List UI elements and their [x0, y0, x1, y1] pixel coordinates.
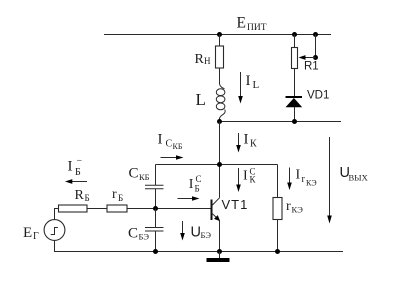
- svg-text:C: C: [166, 139, 173, 150]
- label C_КБ: [129, 166, 150, 182]
- wire C_БЭ bottom stub: [155, 231, 157, 252]
- wire r_кэ to bottom rail: [277, 220, 279, 252]
- node dot VD1 on middle rail: [292, 119, 297, 124]
- arrow current I_Б pointing left: [65, 179, 87, 184]
- svg-text:КБ: КБ: [139, 172, 150, 182]
- svg-text:ВЫХ: ВЫХ: [349, 173, 368, 183]
- resistor R_Б: [59, 205, 88, 212]
- label E_Г: [23, 225, 39, 242]
- arrow current I_C_КБ: [161, 155, 184, 160]
- wire from collector rail corner down to r_кэ: [277, 165, 279, 199]
- label R_н: [195, 52, 212, 67]
- arrow R1 wiper pointing left into resistor: [299, 55, 316, 60]
- wire C_КБ top stub: [155, 165, 157, 186]
- svg-text:I: I: [296, 168, 301, 183]
- resistor r_кэ: [273, 198, 282, 220]
- label C_БЭ: [128, 226, 149, 242]
- node dot collector rail junction: [217, 162, 222, 167]
- label I_r_кэ: [296, 168, 317, 188]
- wire middle rail: [220, 121, 342, 123]
- arrow current I_Б^C: [178, 196, 200, 201]
- svg-text:КЭ: КЭ: [292, 205, 304, 215]
- wire from R_н down to inductor L: [219, 68, 221, 84]
- svg-text:E: E: [23, 225, 32, 241]
- svg-text:I: I: [243, 169, 248, 184]
- label I_К: [244, 132, 258, 150]
- label r_Б: [112, 187, 123, 203]
- resistor r_Б: [107, 205, 127, 212]
- node dot wiper corner: [313, 55, 318, 60]
- svg-text:I: I: [189, 177, 194, 192]
- svg-text:I: I: [246, 73, 251, 89]
- wire from E_Г bottom to ground rail: [55, 240, 344, 251]
- capacitor C_КБ: [145, 185, 164, 189]
- label U_ВЫХ: [340, 165, 368, 183]
- node dot C_БЭ on bottom rail: [153, 249, 158, 254]
- wire R1 wiper drop: [315, 35, 317, 58]
- node junction dot top rail at R_н branch: [217, 32, 222, 37]
- svg-text:−: −: [77, 156, 83, 167]
- label I_Б^- with arrow left: [68, 156, 83, 179]
- svg-text:C: C: [129, 166, 139, 182]
- svg-text:Б: Б: [75, 167, 81, 178]
- label r_кэ: [286, 199, 303, 215]
- svg-text:БЭ: БЭ: [139, 232, 150, 242]
- svg-text:I: I: [68, 159, 73, 175]
- svg-text:L: L: [196, 90, 206, 109]
- arrow current I_К^C: [236, 168, 241, 192]
- label I_L: [246, 73, 260, 91]
- svg-text:ПИТ: ПИТ: [247, 23, 267, 33]
- resistor R1 (variable): [292, 48, 298, 69]
- svg-text:КЭ: КЭ: [306, 179, 317, 188]
- svg-text:VD1: VD1: [307, 90, 329, 102]
- diode VD1 triangle: [286, 98, 303, 107]
- wire from R1 dot down to R1: [294, 35, 296, 48]
- svg-text:VT1: VT1: [222, 197, 249, 212]
- wire E_pit top supply rail: [104, 34, 331, 36]
- node dot L / collector junction: [217, 119, 222, 124]
- wire from R1 down to VD1: [294, 69, 296, 97]
- svg-text:R1: R1: [304, 61, 319, 73]
- svg-text:Н: Н: [204, 56, 211, 66]
- svg-text:КБ: КБ: [173, 142, 183, 151]
- arrow current I_L: [238, 72, 243, 104]
- arrow current I_K: [236, 133, 241, 153]
- wire base rail from r_Б to VT1 base: [127, 208, 212, 210]
- node dot base rail / capacitors: [153, 206, 158, 211]
- svg-text:r: r: [112, 187, 117, 202]
- svg-text:C: C: [196, 174, 202, 184]
- svg-text:U: U: [191, 225, 201, 241]
- svg-text:Б: Б: [85, 193, 90, 203]
- arrow voltage U_ВЫХ: [327, 137, 332, 224]
- svg-text:L: L: [253, 79, 260, 91]
- wire from E_Г to R_Б: [55, 209, 59, 220]
- resistor R_н: [216, 46, 224, 68]
- svg-text:Б: Б: [118, 193, 123, 203]
- svg-text:Б: Б: [195, 184, 200, 194]
- node dot emitter on bottom rail: [217, 249, 222, 254]
- label R_Б: [75, 188, 90, 203]
- arrow voltage U_БЭ: [180, 221, 185, 241]
- node junction dot top rail at R1 branch: [292, 32, 297, 37]
- arrow current I_r_кэ: [287, 168, 292, 191]
- source E_Г step symbol: [51, 228, 58, 235]
- svg-text:К: К: [250, 175, 257, 185]
- label E_пит: [237, 14, 267, 33]
- wire collector cross rail to r_кэ: [156, 164, 278, 166]
- node dot r_кэ on bottom rail: [275, 249, 280, 254]
- svg-text:R: R: [75, 188, 85, 203]
- transistor VT1 emitter lead: [212, 213, 220, 221]
- svg-text:I: I: [244, 132, 249, 148]
- wire emitter to bottom rail: [219, 221, 221, 252]
- wire between R_Б and r_Б: [87, 208, 107, 210]
- label U_БЭ: [191, 225, 212, 241]
- label I_К^C: [243, 167, 257, 185]
- wire C_БЭ top stub: [155, 209, 157, 228]
- svg-text:Г: Г: [33, 231, 39, 242]
- transistor VT1 base bar: [211, 200, 213, 221]
- capacitor C_БЭ: [145, 228, 164, 232]
- svg-text:БЭ: БЭ: [201, 230, 212, 240]
- inductor L: [216, 84, 225, 121]
- svg-text:r: r: [286, 199, 291, 214]
- ground bar: [207, 258, 230, 262]
- svg-text:I: I: [158, 132, 163, 148]
- source E_Г circle: [44, 220, 65, 241]
- transistor VT1 collector lead: [212, 198, 220, 206]
- wire from VD1 down to middle rail: [294, 107, 296, 122]
- diode VD1 cathode bar: [286, 96, 303, 98]
- transistor VT1 emitter arrowhead: [214, 215, 220, 221]
- svg-text:r: r: [302, 174, 306, 185]
- wire C_КБ bottom stub: [155, 189, 157, 209]
- svg-text:E: E: [237, 14, 246, 31]
- label I_Б^C: [189, 174, 202, 194]
- wire collector vertical: [219, 122, 221, 198]
- svg-text:C: C: [128, 226, 138, 242]
- wire from top rail down to R_н: [219, 35, 221, 47]
- node junction dot top rail at R1 wiper branch: [313, 32, 318, 37]
- label I_C_КБ: [158, 132, 183, 152]
- ground stub: [219, 252, 221, 259]
- svg-text:R: R: [195, 52, 205, 67]
- svg-text:К: К: [250, 139, 257, 150]
